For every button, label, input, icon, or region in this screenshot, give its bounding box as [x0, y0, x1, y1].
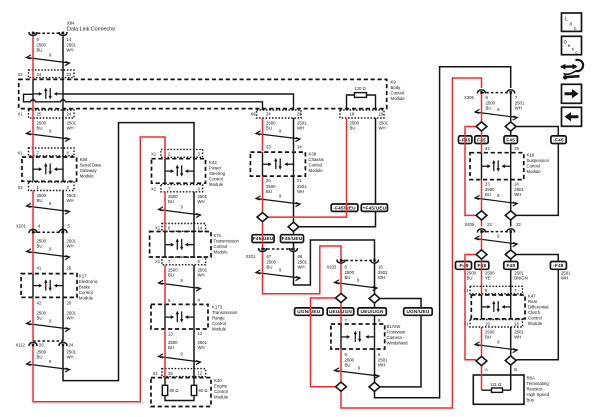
svg-text:26: 26 — [67, 266, 72, 271]
connector X409 dashed mating line — [482, 231, 511, 233]
K71 internal wire right — [193, 232, 195, 258]
K47 connector X1 pin box (bottom) — [470, 320, 523, 328]
wire 2501 WH long run to X306-7 — [375, 67, 511, 398]
svg-text:18: 18 — [514, 322, 519, 327]
wire 2500 camera pin 5 to bottom diamond — [340, 349, 342, 382]
wire 2501 WH from X201-5 to K17-26 — [62, 233, 64, 274]
wire 2501 X409 to diamond row 2 — [510, 233, 512, 250]
svg-text:18: 18 — [350, 112, 355, 117]
connector X201 pin 68 hook — [289, 248, 297, 252]
option label box -F45 (left bypass) — [459, 136, 472, 144]
wire 2501 diamond to camera pin 8 — [374, 303, 376, 324]
connector X112 pin 24 hook — [59, 342, 67, 346]
K20 left resistor top lead — [164, 378, 166, 386]
wire 2500 BU from X112 down and around to K43 X1-2 — [33, 137, 165, 402]
module K71 Transmission Control Module box — [150, 232, 211, 258]
svg-text:A: A — [485, 367, 488, 372]
toolbar button next arrow — [562, 84, 582, 103]
svg-text:X1: X1 — [153, 371, 159, 376]
twisted pair symbol (X306 to diamonds) — [475, 109, 517, 120]
svg-text:e: e — [568, 43, 571, 48]
svg-text:24: 24 — [69, 343, 74, 348]
connector X201 dashed mating line (column C) — [263, 248, 294, 250]
K20 resistor bottom joining wire — [165, 396, 194, 401]
option label box UEU/UGN (camera right main) — [358, 308, 387, 315]
R6A resistor right lead — [503, 389, 511, 391]
svg-text:25: 25 — [297, 112, 302, 117]
connector X203 pin 8 hook — [337, 259, 345, 263]
wire 2500 X409 to diamond row 2 — [481, 233, 483, 250]
toolbar button back arrow — [562, 107, 582, 126]
svg-text:16: 16 — [378, 265, 383, 270]
option label box F45/UEU (right) — [281, 235, 304, 243]
wire 2500 diamond A into R6A — [481, 366, 483, 390]
twisted pair symbol (below X112) — [27, 361, 70, 372]
K20 60 ohm resistor left body — [162, 385, 167, 395]
camera internal serial data symbol — [341, 331, 375, 343]
twisted pair symbol (K47 to diamonds A/B) — [475, 342, 517, 353]
svg-text:+F45/UEU: +F45/UEU — [363, 205, 387, 210]
option label box UGN/UEU (camera bypass right) — [404, 308, 433, 315]
wire 2501 WH from K56 X2-2 to X201-5 — [62, 191, 64, 234]
wire 2501 WH from K38-21 to splice diamond — [293, 176, 295, 222]
svg-text:14: 14 — [198, 226, 203, 231]
svg-text:X2: X2 — [18, 72, 24, 77]
wire 2501 WH diamond to X201-68 — [293, 232, 295, 248]
svg-text:19: 19 — [379, 112, 384, 117]
svg-text:42: 42 — [37, 301, 42, 306]
camera bypass wire 2501 (UGN/UEU) — [380, 299, 421, 387]
wire 2500 BU from BCM X6-24 to K38-33 — [262, 118, 264, 151]
K43 connector X1 pin box (top) — [161, 149, 203, 157]
wire 2501 WH from K71 X1-6 to K173-4 — [193, 265, 195, 305]
svg-text:X1: X1 — [155, 226, 161, 231]
twisted pair symbol (K173 to K20) — [159, 354, 201, 365]
K19 bypass wire 2500 (-F45) — [465, 127, 476, 216]
BCM connector X6 pin box (24/25) — [257, 110, 302, 118]
wire 2500 BU from K71 X1-7 to K173-5 — [164, 265, 166, 305]
splice diamond 2500 (X306 area) — [476, 122, 487, 131]
K17 internal serial data symbol — [33, 279, 63, 291]
module B17xW Frontview Camera box — [331, 324, 385, 349]
K173 internal wire right — [193, 304, 195, 329]
wire 2500 BU X203-8 to camera splice diamond — [340, 264, 342, 294]
K38 internal serial data symbol — [263, 158, 294, 170]
option label box -F48 (left bypass) — [456, 262, 472, 270]
wire 2500 diamond to X409-23 — [481, 220, 483, 226]
connector X84 dashed mating line — [33, 32, 63, 34]
twisted pair symbol (below X201 column C) — [256, 270, 300, 281]
wire 2501 camera pin 6 to bottom diamond — [374, 349, 376, 382]
splice diamond 2501 (camera top) — [369, 294, 380, 303]
svg-text:X306: X306 — [464, 95, 474, 100]
splice diamond 2501 (X409 area) — [505, 211, 516, 220]
wire 2500 BU from K38-20 to splice diamond — [262, 176, 264, 212]
wire 2501 WH K47 X1-18 to diamond B — [510, 327, 512, 356]
svg-text:23: 23 — [485, 182, 490, 187]
option label box -F45/UEU on BCM-18 wire — [331, 204, 358, 211]
wire 2500 BU from K56 X2-1 to X201-4 — [32, 191, 34, 234]
module K20 Engine Control Module box — [151, 378, 211, 407]
svg-text:20: 20 — [266, 178, 271, 183]
K71 internal wire left — [164, 232, 166, 258]
svg-text:-F45: -F45 — [553, 137, 564, 142]
connector X112 pin 25 hook — [29, 342, 37, 346]
svg-text:26: 26 — [67, 301, 72, 306]
svg-text:Data Link Connector: Data Link Connector — [67, 27, 116, 33]
wire 2500 BU from K17-42 to X112-25 — [32, 297, 34, 341]
svg-text:23: 23 — [67, 72, 72, 77]
svg-text:X84: X84 — [67, 21, 75, 26]
svg-text:34: 34 — [297, 145, 302, 150]
svg-text:68: 68 — [298, 254, 303, 259]
K56 internal wire left — [32, 157, 34, 181]
wire 2501 WH from BCM X6-25 to K38-34 — [293, 118, 295, 151]
twisted pair symbol (K56 to X201) — [27, 203, 70, 214]
twisted pair symbol (K38 to diamonds) — [256, 196, 300, 207]
connector X84 pin 14 hook — [59, 32, 67, 36]
wire 2500 diamond to camera pin 7 — [340, 303, 342, 324]
wire 2501 WH from K43 X1-8 to K71 X1-14 — [193, 192, 195, 232]
connector X84 pin 6 hook — [29, 32, 37, 36]
wire into BCM from X2-23 (internal) — [62, 79, 64, 110]
svg-text:X1: X1 — [151, 152, 157, 157]
wire 2500 BU from X201-67 jog up to X203-8 — [263, 246, 342, 294]
svg-text:33: 33 — [266, 145, 271, 150]
camera internal wire left — [340, 324, 342, 349]
svg-text:-F48: -F48 — [553, 263, 564, 268]
K43 internal wire left — [164, 159, 166, 184]
K17 internal wire left — [32, 274, 34, 298]
svg-text:22: 22 — [516, 222, 521, 227]
toolbar button LOC — [562, 13, 582, 32]
twisted pair symbol (X409 to diamonds) — [475, 236, 517, 247]
splice diamond 2500 (K47 area) — [476, 250, 487, 259]
svg-text:14: 14 — [67, 37, 72, 42]
svg-text:67: 67 — [267, 254, 272, 259]
svg-text:X2: X2 — [18, 185, 24, 190]
wire 2500 BU K19-23 to diamond — [481, 180, 483, 211]
wire 2500 BU from K43 X1-7 to K71 X1-8 — [164, 192, 166, 232]
svg-text:23: 23 — [487, 222, 492, 227]
wire 2501 diamond to X409-22 — [510, 220, 512, 226]
svg-text:41: 41 — [37, 266, 42, 271]
svg-text:21: 21 — [297, 178, 302, 183]
camera internal wire right — [374, 324, 376, 349]
connector X306 dashed mating line — [482, 92, 511, 94]
svg-text:F45: F45 — [506, 137, 515, 142]
K38 internal wire left — [262, 152, 264, 176]
splice diamond 2501 (camera bottom) — [369, 382, 380, 391]
wire 2501 WH from X84-14 to K9 BCM X2-23 — [62, 37, 64, 80]
twisted pair symbol (BCM to K38) — [256, 131, 300, 142]
connector X306 pin 8 hook — [477, 90, 485, 94]
twisted pair symbol (X201 to K17) — [27, 249, 70, 260]
wire 2500 BU from K173-13 to K20 X1-26 — [164, 329, 166, 378]
svg-text:UGN/UEU: UGN/UEU — [406, 309, 429, 314]
module K56 Serial Data Gateway Module box — [22, 157, 77, 181]
option label box -F48 (right bypass) — [550, 262, 566, 270]
BCM connector X2 pin box — [29, 70, 75, 78]
splice diamond 2501 (K47 area) — [505, 250, 516, 259]
svg-text:X409: X409 — [465, 222, 475, 227]
svg-text:24: 24 — [37, 72, 42, 77]
K19 internal serial data symbol — [482, 160, 511, 172]
K56 internal wire right — [62, 157, 64, 181]
toolbar button DESC — [562, 36, 582, 55]
BCM internal 2500 bus line with wire hops — [24, 94, 263, 110]
twisted pair symbol (K17 to X112) — [27, 321, 70, 332]
svg-text:UEU/UGN: UEU/UGN — [361, 309, 384, 314]
wire 2500 BU long run to X306-8 — [341, 78, 482, 408]
wire 2501 X306-7 to diamond — [510, 94, 512, 122]
K47 connector X1 pin box (top) — [470, 286, 523, 294]
svg-text:26: 26 — [168, 371, 173, 376]
svg-text:24: 24 — [67, 112, 72, 117]
svg-text:X201: X201 — [16, 224, 26, 229]
BCM connector X1 pin box — [29, 110, 75, 118]
K47 bypass wire 2500 BU (-F48) — [465, 255, 476, 360]
splice diamond A — [476, 356, 487, 365]
svg-text:X1: X1 — [155, 259, 161, 264]
wire 2501 WH branch to BCM pin 19 — [299, 118, 375, 227]
K47 internal wire left — [481, 295, 483, 319]
option label box -F45 (right bypass) — [551, 136, 566, 144]
svg-text:12: 12 — [198, 371, 203, 376]
splice diamond 2501 (K38 area) — [288, 222, 299, 231]
connector X409 pin 23 hook — [477, 229, 485, 233]
svg-text:22: 22 — [485, 146, 490, 151]
K71 connector X1 pin box (top) — [162, 224, 206, 232]
K56 connector X2 pin box — [29, 182, 75, 190]
BCM 120 ohm resistor body — [355, 93, 367, 98]
wire into BCM from X2-24 (internal) — [32, 79, 34, 101]
module K17 Electronic Brake Control Module box — [21, 274, 77, 298]
option label box F45 (black main) — [504, 136, 517, 144]
option label box F48 (red main) — [475, 262, 489, 270]
splice diamond 2500 (X409 area) — [476, 211, 487, 220]
toolbar icon route/wrench — [560, 60, 583, 80]
svg-text:L: L — [565, 17, 568, 23]
option label box +F45/UEU on BCM-19 wire — [361, 204, 387, 211]
K19 internal wire right — [510, 153, 512, 180]
K43 connector X1 pin box (bottom) — [161, 185, 203, 192]
twisted pair symbol (DLC to BCM) — [27, 55, 70, 66]
wire 2501 WH X203-16 to camera splice diamond — [374, 264, 376, 294]
twisted pair symbol (K19 to diamonds) — [475, 195, 517, 206]
K20 right resistor top lead — [193, 378, 195, 386]
wire 2500 BU K47 X1-19 to diamond A — [481, 327, 483, 356]
module K9 Body Control Module box — [19, 79, 387, 108]
option label box F48 (black main) — [504, 262, 518, 270]
wire 2501 WH from K17-26 to X112-24 — [62, 297, 64, 341]
connector X409 pin 22 hook — [507, 229, 515, 233]
K17 internal wire right — [62, 274, 64, 298]
svg-text:X203: X203 — [327, 265, 337, 270]
wire 2501 diamond B into R6A — [510, 365, 512, 390]
BCM internal serial data symbol — [33, 88, 63, 100]
svg-text:-F45/UEU: -F45/UEU — [333, 205, 356, 210]
wire 2501 BN/GN diamond to K47 X1-7 — [510, 259, 512, 295]
svg-text:25: 25 — [39, 343, 44, 348]
K47 internal wire right — [510, 295, 512, 319]
K47 bypass wire 2501 WH (-F48) — [516, 255, 558, 360]
svg-text:121 Ω: 121 Ω — [490, 382, 501, 387]
svg-text:13: 13 — [168, 332, 173, 337]
svg-text:X112: X112 — [16, 343, 26, 348]
svg-text:F48: F48 — [506, 263, 515, 268]
option label box UGN/UEU (camera bypass left) — [295, 308, 323, 315]
option label box UEU/UGN (camera left main) — [327, 308, 354, 315]
option label box F45 (red main) — [475, 136, 488, 144]
wire 2500 BU diamond to X201-67 — [262, 222, 264, 248]
svg-text:X1: X1 — [18, 151, 24, 156]
splice diamond 2501 (X306 area) — [505, 122, 516, 131]
K71 connector X1 pin box (bottom) — [162, 257, 206, 265]
wire 2500 diamond to K19-22 — [481, 131, 483, 152]
connector X203 pin 16 hook — [370, 259, 378, 263]
svg-text:X201: X201 — [246, 254, 256, 259]
connector X203 dashed mating line — [341, 260, 375, 262]
wire 2501 WH K19-24 to diamond — [510, 180, 512, 211]
svg-text:24: 24 — [266, 112, 271, 117]
svg-text:X1: X1 — [151, 187, 157, 192]
BCM pin box (18/19) — [340, 110, 384, 118]
BCM 120 ohm resistor left leg — [347, 95, 355, 110]
R6A resistor left lead — [482, 389, 492, 391]
svg-text:-F48: -F48 — [458, 263, 469, 268]
wire 2501 WH from BCM X1-24 to K56 X1-8 — [62, 110, 64, 157]
BCM 120 ohm resistor right leg — [367, 95, 376, 110]
K71 internal serial data symbol — [165, 238, 194, 250]
splice diamond 2500 (K38 area) — [257, 213, 268, 222]
module K19 Suspension Control Module box — [470, 153, 524, 180]
twisted pair symbol (BCM to K56) — [27, 131, 70, 142]
connector X201 pin 5 hook — [59, 229, 67, 233]
K20 60 ohm resistor right body — [191, 385, 196, 395]
svg-text:12: 12 — [198, 331, 203, 336]
twisted pair symbol (K43 to K71) — [159, 207, 201, 218]
option label box F45/UEU (left) — [252, 235, 274, 243]
svg-text:B: B — [514, 367, 517, 372]
module K43 Power Steering Control Module box — [152, 159, 206, 184]
svg-text:25: 25 — [37, 112, 42, 117]
connector X201 pin 4 hook — [29, 229, 37, 233]
camera bypass wire 2500 (UGN/UEU) — [311, 298, 337, 387]
svg-text:UGN/UEU: UGN/UEU — [297, 309, 320, 314]
K56 connector X1 pin box — [29, 148, 75, 156]
wire 2500 BU from BCM X1-25 to K56 X1-7 — [32, 110, 34, 157]
K43 internal serial data symbol — [165, 165, 194, 177]
twisted pair symbol (X203 to camera diamonds) — [335, 280, 378, 291]
svg-text:60 Ω: 60 Ω — [170, 388, 179, 393]
splice diamond 2500 (camera top) — [336, 293, 347, 302]
connector X201 pin 67 hook — [258, 248, 266, 252]
wire 2500 BU from X201-4 to K17-41 — [32, 233, 34, 274]
svg-text:F45/UEU: F45/UEU — [253, 236, 274, 241]
BCM internal 2501 bus line — [63, 94, 294, 110]
module K173 Transmission Range Control Module box — [151, 304, 208, 329]
svg-text:24: 24 — [514, 182, 519, 187]
K19 bypass wire 2501 (-F45) — [516, 127, 558, 216]
K20 connector X1 pin box — [162, 369, 206, 377]
K173 internal serial data symbol — [165, 311, 194, 323]
wire 2501 WH from X201-68 jog up to X203-16 — [294, 240, 375, 285]
connector X112 dashed mating line — [33, 340, 63, 342]
R6A 121 ohm resistor body — [492, 388, 503, 392]
wire 2501 diamond to K19-25 — [510, 131, 512, 152]
svg-text:o: o — [570, 22, 573, 28]
wire 2501 WH from K173-12 to K20 X1-12 — [193, 329, 195, 378]
splice diamond 2500 (camera bottom) — [336, 382, 347, 391]
module K38 Chassis Control Module box — [250, 152, 305, 176]
K38 internal wire right — [293, 152, 295, 176]
twisted pair symbol (camera to diamonds) — [335, 368, 380, 379]
wire 2500 BU BCM internal to X1-25 exit — [32, 102, 34, 110]
svg-text:X6: X6 — [251, 112, 257, 117]
K19 internal wire left — [481, 153, 483, 180]
splice diamond B — [505, 356, 516, 365]
svg-text:X1: X1 — [18, 112, 24, 117]
twisted pair symbol (K71 to K173) — [159, 280, 201, 291]
connector X201 dashed mating line (column A) — [33, 231, 63, 233]
wire 2500 BU from X84-6 to K9 BCM X2-24 — [32, 37, 34, 80]
K43 internal wire right — [193, 159, 195, 184]
svg-text:120 Ω: 120 Ω — [355, 86, 366, 91]
wire 2500 BU branch to BCM pin 18 — [268, 118, 346, 217]
svg-text:19: 19 — [485, 322, 490, 327]
svg-text:F45/UEU: F45/UEU — [282, 236, 303, 241]
svg-text:25: 25 — [514, 146, 519, 151]
K173 internal wire left — [164, 304, 166, 329]
K47 internal serial data symbol — [482, 301, 511, 313]
wire 2500 X306-8 to diamond — [481, 94, 483, 122]
connector X306 pin 7 hook — [507, 90, 515, 94]
wire 2501 WH from X112 down and around to K43 X1-3 — [63, 123, 194, 381]
K56 internal serial data symbol — [33, 163, 63, 175]
svg-text:60 Ω: 60 Ω — [199, 388, 208, 393]
module R6A Terminating Resistor box — [473, 375, 524, 404]
module K47 Rear Differential Clutch Control Module box — [471, 295, 525, 319]
wire 2500 YE diamond to K47 X1-8 — [481, 259, 483, 295]
